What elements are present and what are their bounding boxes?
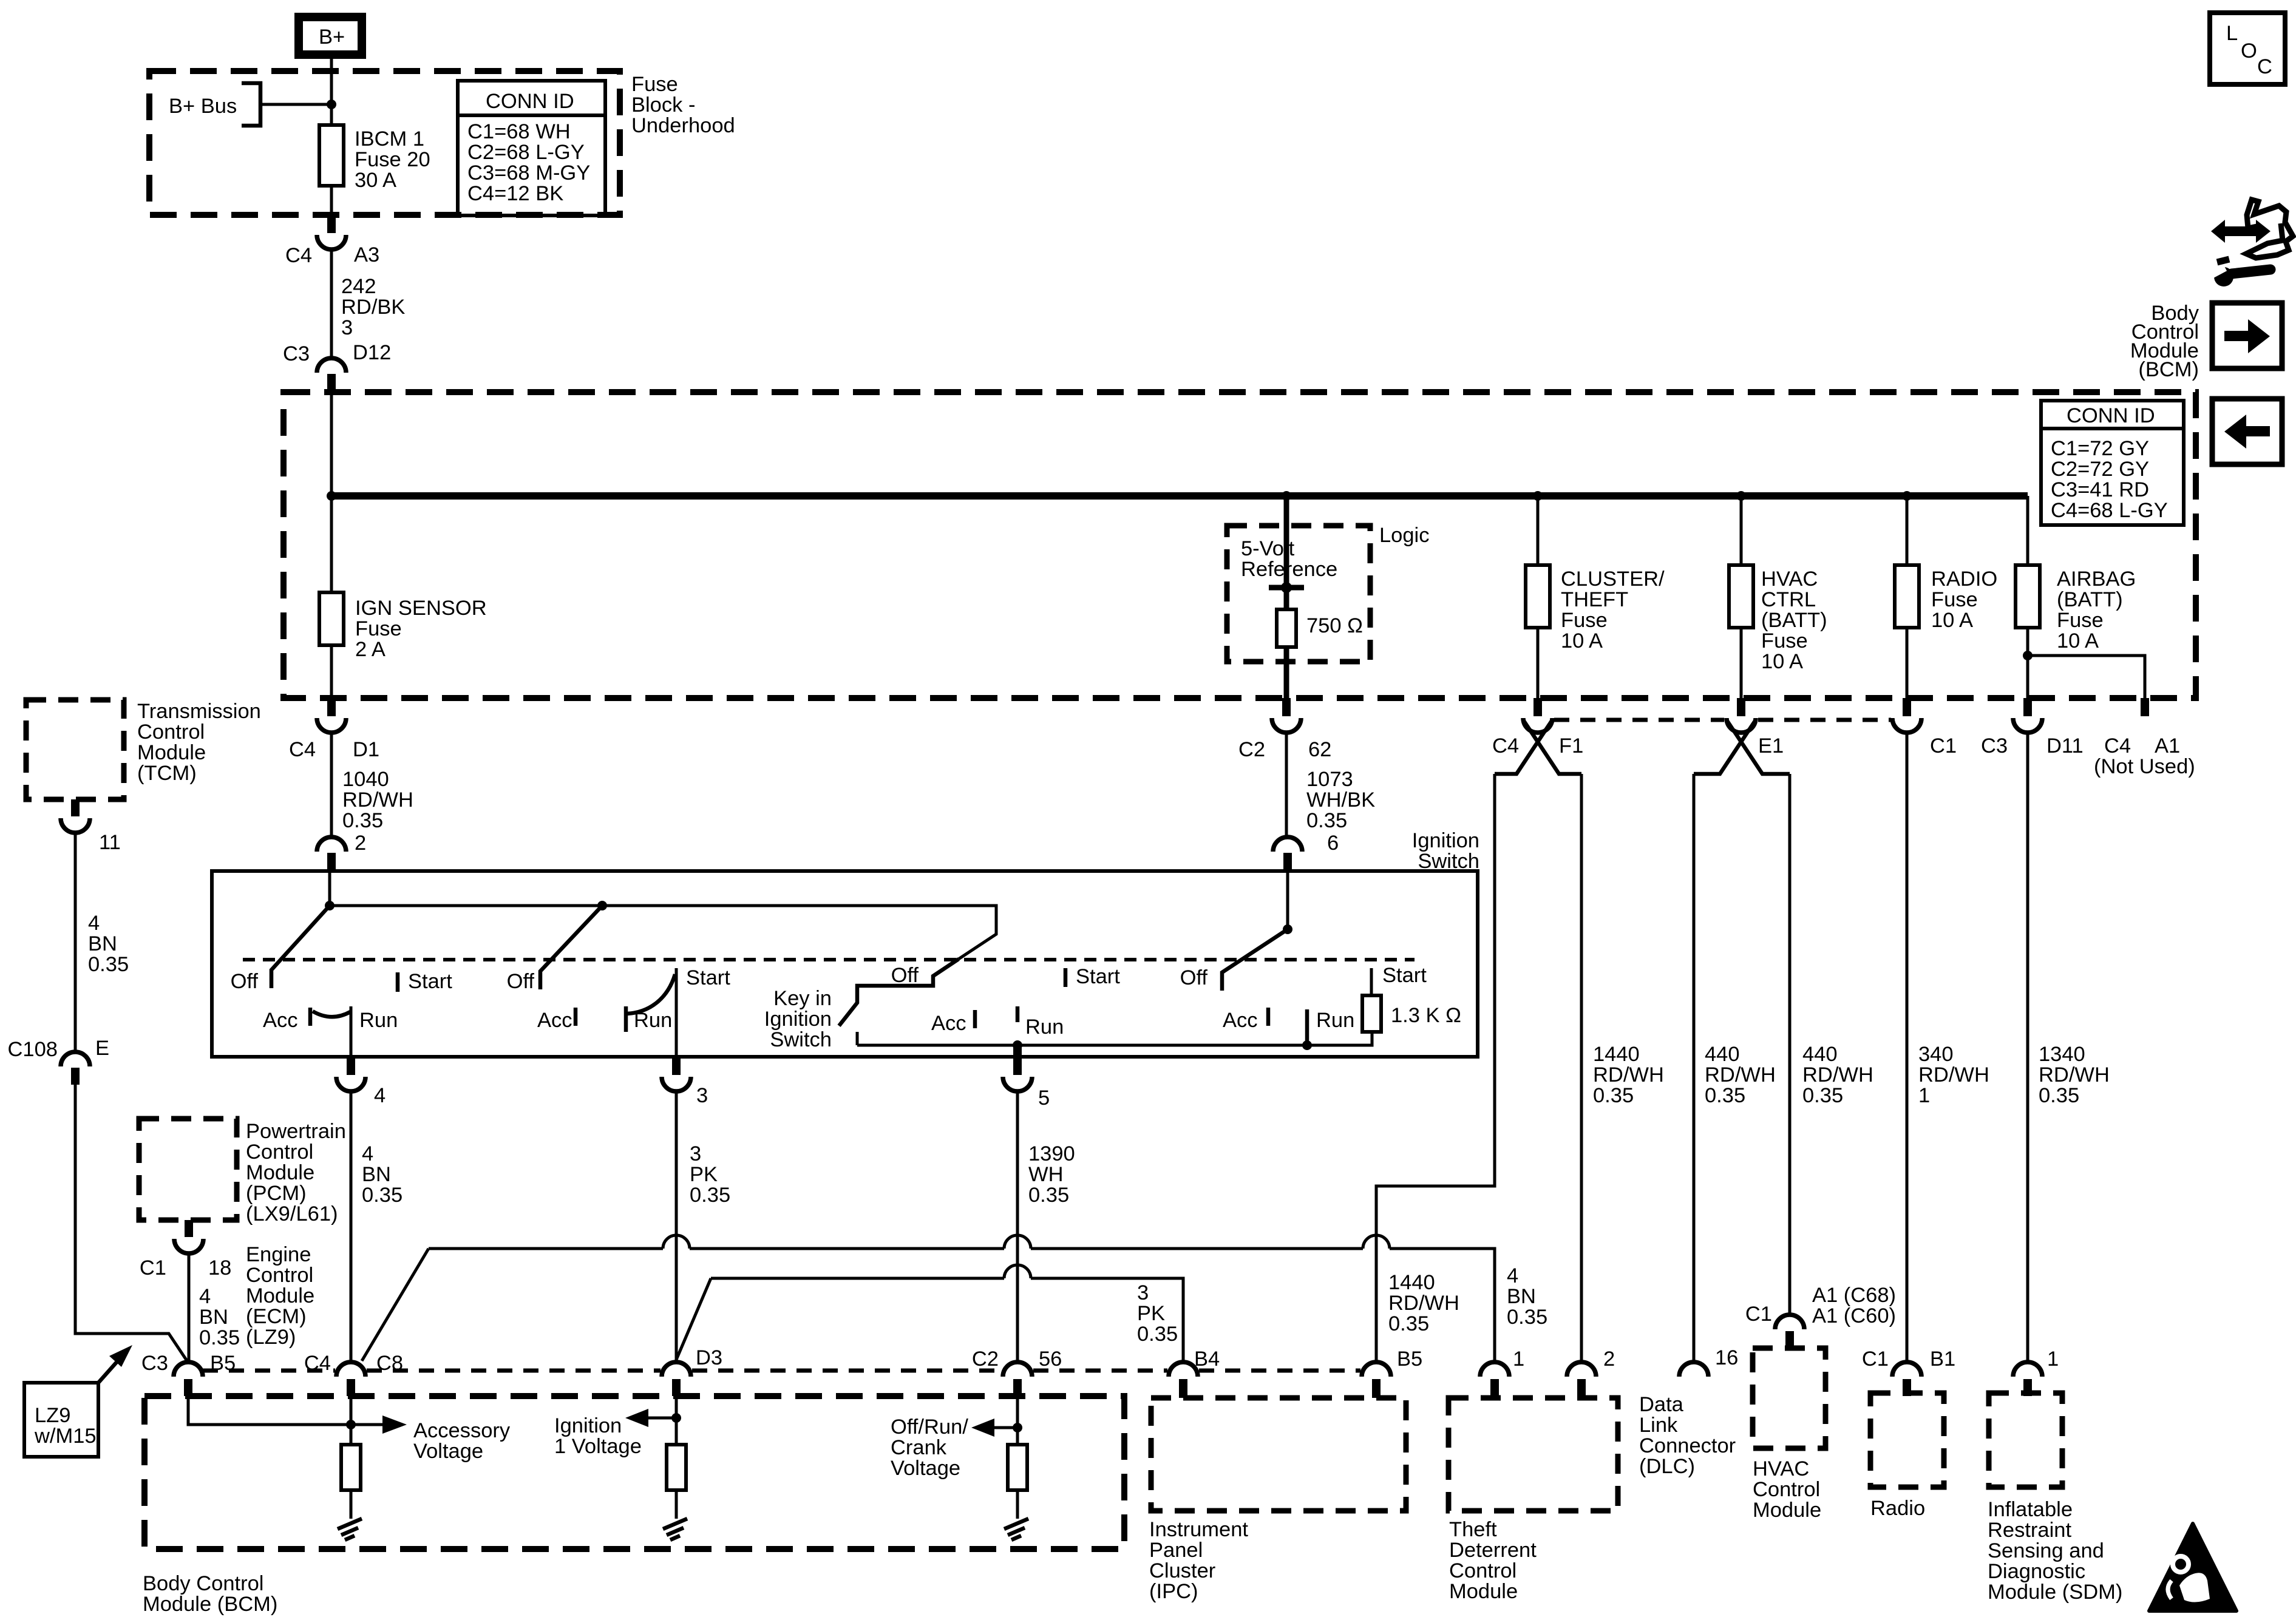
- icon LOC box: [2210, 13, 2285, 84]
- wire ignition feed rail: [325, 871, 996, 959]
- wire horizontal branch line 2: [711, 1278, 1183, 1362]
- box BCM bottom: [143, 1396, 1124, 1616]
- svg-text:0.35: 0.35: [88, 953, 129, 976]
- wire start contact 2: [675, 968, 678, 1057]
- connector C4/A3: [285, 215, 379, 267]
- connector B4 (into IPC): [1169, 1347, 1220, 1398]
- svg-text:4: 4: [374, 1084, 385, 1107]
- wire bus to 750 ohm resistor: [1269, 496, 1304, 609]
- box SDM: [1988, 1393, 2122, 1604]
- svg-text:1: 1: [2047, 1347, 2059, 1371]
- svg-text:Acc: Acc: [263, 1009, 298, 1032]
- svg-text:O: O: [2241, 39, 2257, 63]
- svg-text:IGN SENSOR: IGN SENSOR: [355, 597, 487, 620]
- svg-text:Run: Run: [359, 1009, 398, 1032]
- svg-text:Control: Control: [246, 1141, 313, 1164]
- svg-text:BN: BN: [362, 1163, 391, 1186]
- wire resistor to C2: [1284, 647, 1289, 698]
- svg-text:Off/Run/: Off/Run/: [891, 1415, 968, 1439]
- svg-text:C1=68 WH: C1=68 WH: [467, 120, 571, 143]
- resistor BCM load 3: [1008, 1445, 1027, 1490]
- svg-text:10 A: 10 A: [1761, 650, 1803, 673]
- svg-text:Theft: Theft: [1449, 1518, 1497, 1541]
- fuse IGN SENSOR 2 A: [319, 592, 487, 661]
- wire 4 into BCM load: [350, 1396, 353, 1445]
- svg-text:Control: Control: [1753, 1478, 1820, 1501]
- svg-text:Start: Start: [408, 970, 452, 993]
- svg-text:1440: 1440: [1388, 1271, 1435, 1294]
- connector 2 (into theft module): [1567, 1347, 1615, 1398]
- label Fuse Block - Underhood: [631, 73, 735, 137]
- connector C1/B1 (radio): [1862, 1347, 1955, 1396]
- svg-text:CTRL: CTRL: [1761, 588, 1816, 611]
- svg-text:Acc: Acc: [931, 1012, 966, 1035]
- svg-text:RD/WH: RD/WH: [342, 788, 413, 812]
- svg-text:Control: Control: [137, 720, 205, 744]
- svg-text:C1: C1: [1862, 1347, 1889, 1371]
- connector C3/D11 (BCM out): [1981, 698, 2084, 758]
- svg-text:1: 1: [1918, 1084, 1930, 1107]
- svg-text:Engine: Engine: [246, 1243, 311, 1266]
- svg-text:Start: Start: [1076, 965, 1120, 988]
- fuse block underhood box: [149, 71, 620, 215]
- switch wiper 4: [1222, 929, 1288, 991]
- connector 16 (DLC): [1679, 1346, 1738, 1377]
- wire 5 into BCM load: [1016, 1396, 1019, 1445]
- wire IGN SENSOR fuse to D1: [330, 645, 333, 698]
- svg-text:C3=41 RD: C3=41 RD: [2051, 478, 2149, 501]
- svg-text:C108: C108: [8, 1038, 58, 1061]
- svg-text:C2: C2: [1238, 738, 1265, 761]
- wire 5 rail tap: [1013, 1045, 1022, 1059]
- wire 1073 WH/BK 0.35: [1286, 733, 1375, 855]
- svg-text:4: 4: [199, 1285, 211, 1308]
- svg-text:CONN ID: CONN ID: [486, 90, 574, 113]
- svg-text:Sensing and: Sensing and: [1988, 1539, 2104, 1562]
- svg-text:Fuse: Fuse: [2057, 609, 2104, 632]
- wire BCM feed bus: [327, 491, 2028, 501]
- svg-text:0.35: 0.35: [690, 1184, 730, 1207]
- connector C2/62 (BCM out): [1238, 698, 1331, 761]
- svg-text:Voltage: Voltage: [891, 1457, 960, 1480]
- svg-text:1440: 1440: [1593, 1043, 1640, 1066]
- icon airbag warning triangle: [2149, 1524, 2237, 1611]
- dotted connector row line (bottom): [203, 1369, 1360, 1373]
- wire B+ to fuse: [330, 58, 333, 125]
- svg-text:Run: Run: [1025, 1015, 1064, 1039]
- svg-text:(ECM): (ECM): [246, 1305, 307, 1328]
- svg-text:PK: PK: [690, 1163, 718, 1186]
- svg-text:(Not Used): (Not Used): [2094, 755, 2195, 778]
- svg-text:56: 56: [1039, 1347, 1062, 1371]
- fuse CLUSTER/THEFT 10 A: [1526, 496, 1665, 698]
- resistor 1.3 K ohm: [1362, 964, 1461, 1032]
- label DLC: [1639, 1393, 1736, 1478]
- svg-text:RD/WH: RD/WH: [1802, 1063, 1873, 1086]
- svg-text:D12: D12: [353, 341, 391, 364]
- svg-text:B+ Bus: B+ Bus: [169, 95, 237, 118]
- svg-text:D3: D3: [696, 1346, 722, 1369]
- svg-text:Body Control: Body Control: [143, 1572, 263, 1595]
- svg-text:(BATT): (BATT): [2057, 588, 2123, 611]
- svg-text:RD/BK: RD/BK: [341, 296, 405, 319]
- connector C3/D12: [283, 341, 391, 392]
- svg-text:3: 3: [696, 1084, 708, 1107]
- svg-text:C4: C4: [1492, 734, 1519, 758]
- svg-text:Accessory: Accessory: [413, 1419, 511, 1442]
- svg-text:62: 62: [1308, 738, 1331, 761]
- wire radio 340 RD/WH 1: [1907, 733, 1989, 1362]
- connector E1 (BCM out crossover): [1694, 698, 1790, 774]
- icon vehicle outline with arrow and wrench: [2209, 200, 2293, 286]
- svg-text:Control: Control: [246, 1264, 313, 1287]
- svg-text:C3=68 M-GY: C3=68 M-GY: [467, 161, 590, 185]
- fuse RADIO 10 A: [1895, 496, 1997, 698]
- box HVAC control module: [1753, 1348, 1826, 1522]
- svg-text:LZ9: LZ9: [35, 1404, 70, 1427]
- wire 4 BN 0.35 (PCM): [189, 1253, 240, 1362]
- svg-text:0.35: 0.35: [1306, 809, 1347, 832]
- svg-text:C4: C4: [2104, 734, 2131, 758]
- svg-text:PK: PK: [1137, 1302, 1165, 1325]
- switch wiper 1: [271, 906, 330, 988]
- box theft deterrent control module: [1449, 1398, 1618, 1603]
- svg-text:1390: 1390: [1028, 1142, 1075, 1165]
- svg-text:0.35: 0.35: [1388, 1312, 1429, 1335]
- svg-text:Fuse: Fuse: [631, 73, 678, 96]
- wire key-in bottom rail: [857, 1032, 1372, 1050]
- svg-text:D1: D1: [353, 738, 379, 761]
- BCM main box: [284, 392, 2196, 698]
- svg-text:Voltage: Voltage: [413, 1440, 483, 1463]
- wire theft 2 1440 RD/WH 0.35: [1581, 774, 1664, 1362]
- key-in ignition switch lever: [839, 959, 959, 1026]
- connector C1 radio (BCM out): [1892, 698, 1957, 758]
- svg-text:A1 (C60): A1 (C60): [1812, 1304, 1896, 1327]
- wire bus down to IGN SENSOR fuse: [330, 392, 333, 592]
- wire 242 RD/BK 3: [331, 249, 405, 358]
- svg-text:2: 2: [1603, 1347, 1615, 1371]
- svg-text:A1: A1: [2155, 734, 2180, 758]
- svg-text:E: E: [95, 1037, 109, 1060]
- wire airbag fuse split: [2023, 628, 2145, 698]
- connector 4 (ignition out): [336, 1057, 385, 1107]
- connector C4/C8 (into BCM): [304, 1352, 403, 1396]
- label Key in Ignition Switch: [764, 987, 832, 1051]
- svg-text:Switch: Switch: [1418, 850, 1479, 873]
- svg-text:RD/WH: RD/WH: [2039, 1063, 2110, 1086]
- hop over wire 1440: [1363, 1235, 1390, 1249]
- fuse IBCM 1 Fuse 20 30 A: [319, 125, 430, 192]
- svg-text:3: 3: [1137, 1281, 1149, 1304]
- label 3 PK 0.35 (B4 branch): [1137, 1281, 1178, 1346]
- connector 1 (into theft module): [1480, 1347, 1524, 1398]
- svg-text:Powertrain: Powertrain: [246, 1120, 346, 1143]
- svg-text:THEFT: THEFT: [1561, 588, 1628, 611]
- svg-text:1 Voltage: 1 Voltage: [554, 1435, 642, 1458]
- svg-text:C3: C3: [283, 342, 310, 365]
- svg-text:Connector: Connector: [1639, 1434, 1736, 1457]
- svg-text:CLUSTER/: CLUSTER/: [1561, 568, 1665, 591]
- svg-text:RD/WH: RD/WH: [1918, 1063, 1989, 1086]
- svg-text:BN: BN: [199, 1306, 228, 1329]
- svg-text:Radio: Radio: [1870, 1497, 1925, 1520]
- svg-text:10 A: 10 A: [2057, 629, 2099, 653]
- svg-text:WH: WH: [1028, 1163, 1063, 1186]
- svg-text:HVAC: HVAC: [1761, 568, 1818, 591]
- svg-text:C1: C1: [1745, 1303, 1772, 1326]
- svg-text:Module (SDM): Module (SDM): [1988, 1581, 2122, 1604]
- svg-text:Start: Start: [686, 966, 730, 989]
- connector C1/18 (PCM out): [140, 1220, 231, 1280]
- svg-text:10 A: 10 A: [1931, 609, 1973, 632]
- svg-text:C4: C4: [289, 738, 316, 761]
- svg-text:Acc: Acc: [537, 1009, 572, 1032]
- svg-text:4: 4: [88, 912, 100, 935]
- svg-text:C: C: [2257, 55, 2272, 78]
- svg-text:Panel: Panel: [1149, 1539, 1203, 1562]
- switch 1 labels Off Acc Run Start: [231, 970, 453, 1032]
- svg-text:3: 3: [341, 316, 353, 339]
- svg-text:Ignition: Ignition: [764, 1008, 832, 1031]
- svg-text:0.35: 0.35: [1028, 1184, 1069, 1207]
- connector 2 (ignition switch in): [317, 837, 346, 871]
- label LZ9 w/M15: [24, 1345, 132, 1457]
- wire HVAC 440 RD/WH 0.35: [1790, 774, 1873, 1314]
- connector 11 (TCM out): [61, 799, 121, 854]
- connector 1 (SDM): [2013, 1347, 2059, 1396]
- ignition switch box: [212, 871, 1478, 1057]
- svg-text:(DLC): (DLC): [1639, 1455, 1695, 1478]
- svg-text:4: 4: [362, 1142, 373, 1165]
- svg-text:16: 16: [1715, 1346, 1738, 1369]
- connector C4xF1 (BCM out crossover): [1492, 698, 1583, 774]
- svg-text:RD/WH: RD/WH: [1593, 1063, 1664, 1086]
- connector C3/B5 (into BCM): [141, 1352, 236, 1396]
- svg-text:C1=72 GY: C1=72 GY: [2051, 437, 2149, 460]
- svg-text:Underhood: Underhood: [631, 114, 735, 137]
- svg-text:(PCM): (PCM): [246, 1182, 307, 1205]
- svg-text:Fuse: Fuse: [1761, 629, 1808, 653]
- wire 4 BN 0.35 (TCM): [75, 833, 129, 1052]
- svg-text:WH/BK: WH/BK: [1306, 788, 1375, 812]
- svg-text:0.35: 0.35: [362, 1184, 402, 1207]
- svg-text:B5: B5: [1397, 1347, 1422, 1371]
- svg-text:C2=72 GY: C2=72 GY: [2051, 458, 2149, 481]
- svg-text:1: 1: [1513, 1347, 1524, 1371]
- wire ignition 1 voltage arrow: [554, 1409, 681, 1458]
- hop over wire 3: [663, 1235, 690, 1249]
- box 5-Volt Reference: [1227, 526, 1370, 662]
- svg-text:2 A: 2 A: [355, 638, 385, 661]
- svg-text:3: 3: [690, 1142, 701, 1165]
- switch 2 labels Off Acc Run Start: [507, 966, 731, 1032]
- svg-text:(BATT): (BATT): [1761, 609, 1827, 632]
- box TCM: [26, 700, 261, 799]
- resistor BCM load 1: [341, 1445, 361, 1490]
- svg-text:C4: C4: [304, 1352, 331, 1375]
- svg-text:4: 4: [1507, 1264, 1518, 1287]
- svg-text:10 A: 10 A: [1561, 629, 1603, 653]
- svg-text:C1: C1: [140, 1256, 166, 1280]
- svg-text:1073: 1073: [1306, 768, 1353, 791]
- wire horizontal branch line 1: [429, 1249, 1495, 1362]
- box IPC: [1149, 1398, 1406, 1603]
- svg-text:Module: Module: [246, 1284, 314, 1307]
- svg-text:Fuse: Fuse: [1561, 609, 1608, 632]
- svg-text:Inflatable: Inflatable: [1988, 1498, 2073, 1521]
- svg-text:340: 340: [1918, 1043, 1954, 1066]
- table CONN ID (fuse block): [458, 81, 605, 215]
- svg-text:(LZ9): (LZ9): [246, 1326, 296, 1349]
- svg-text:Ignition: Ignition: [554, 1414, 622, 1437]
- svg-text:Instrument: Instrument: [1149, 1518, 1248, 1541]
- svg-text:Run: Run: [1316, 1009, 1354, 1032]
- line accessory-voltage branch: [362, 1249, 429, 1361]
- connector C2/56 (into BCM): [972, 1347, 1062, 1396]
- wire run contact 3 stub: [1016, 1006, 1020, 1022]
- hop over wire 5 (line 2): [1004, 1265, 1031, 1278]
- wire accessory voltage: [188, 1397, 511, 1463]
- svg-text:Module: Module: [1753, 1499, 1821, 1522]
- svg-text:D11: D11: [2046, 734, 2084, 758]
- svg-text:E1: E1: [1758, 734, 1784, 758]
- wire run contact 1: [350, 1006, 353, 1057]
- svg-text:Start: Start: [1382, 964, 1427, 987]
- wire DLC 440 RD/WH 0.35: [1694, 774, 1776, 1362]
- label 4 BN 0.35 (branch line 1): [1507, 1264, 1547, 1329]
- svg-text:F1: F1: [1559, 734, 1583, 758]
- ground (wire 3 load): [663, 1490, 687, 1540]
- wire 4 BN 0.35: [351, 1091, 402, 1362]
- svg-text:C3: C3: [1981, 734, 2008, 758]
- svg-text:L: L: [2226, 22, 2238, 45]
- svg-text:C4: C4: [285, 244, 312, 267]
- connector B5 (into IPC): [1362, 1347, 1422, 1398]
- svg-text:C2=68 L-GY: C2=68 L-GY: [467, 141, 585, 164]
- wire start feed from connector 6: [1283, 871, 1292, 934]
- svg-text:(BCM): (BCM): [2138, 358, 2199, 381]
- svg-text:C3: C3: [141, 1352, 168, 1375]
- connector C4/A1 not used stub: [2094, 698, 2195, 778]
- svg-text:11: 11: [99, 831, 121, 854]
- svg-text:Diagnostic: Diagnostic: [1988, 1560, 2085, 1583]
- svg-text:0.35: 0.35: [1705, 1084, 1745, 1107]
- svg-text:Off: Off: [891, 964, 919, 987]
- svg-text:Cluster: Cluster: [1149, 1559, 1215, 1582]
- svg-text:0.35: 0.35: [342, 809, 383, 832]
- svg-text:0.35: 0.35: [1593, 1084, 1634, 1107]
- svg-text:440: 440: [1705, 1043, 1740, 1066]
- svg-text:Link: Link: [1639, 1414, 1678, 1437]
- fuse HVAC CTRL (BATT) 10 A: [1729, 496, 1827, 698]
- svg-text:B+: B+: [319, 25, 345, 49]
- wire 3 PK 0.35: [676, 1091, 730, 1362]
- switch 4 labels Off Acc Run Start: [1180, 966, 1355, 1045]
- svg-text:CONN ID: CONN ID: [2067, 404, 2155, 427]
- label Ignition Switch: [1412, 829, 1479, 873]
- svg-text:1.3 K Ω: 1.3 K Ω: [1391, 1004, 1461, 1027]
- svg-text:Switch: Switch: [770, 1028, 832, 1051]
- connector C108/E: [8, 1037, 110, 1085]
- ground (wire 4 load): [338, 1490, 362, 1540]
- wire C108 to B5: [75, 1085, 187, 1361]
- ground (wire 5 load): [1004, 1490, 1028, 1540]
- fuse AIRBAG (BATT) 10 A: [2016, 496, 2136, 653]
- svg-text:(LX9/L61): (LX9/L61): [246, 1202, 338, 1225]
- table CONN ID (BCM): [2041, 401, 2184, 525]
- svg-text:242: 242: [341, 275, 376, 298]
- svg-text:RD/WH: RD/WH: [1388, 1292, 1459, 1315]
- svg-text:C4=12 BK: C4=12 BK: [467, 182, 563, 205]
- svg-text:Off: Off: [507, 970, 535, 993]
- wire 1390 WH 0.35: [1017, 1091, 1075, 1362]
- svg-text:C8: C8: [376, 1352, 403, 1375]
- svg-text:Module (BCM): Module (BCM): [143, 1593, 277, 1616]
- wire off/run/crank voltage arrow: [891, 1415, 1022, 1480]
- svg-text:Fuse 20: Fuse 20: [355, 148, 430, 171]
- svg-text:Off: Off: [231, 970, 259, 993]
- wire 1040 RD/WH 0.35: [331, 733, 413, 855]
- icon arrow right box: [2212, 303, 2282, 368]
- dotted connector row line (BCM bottom): [1554, 718, 1891, 722]
- box PCM: [139, 1119, 346, 1225]
- svg-text:RD/WH: RD/WH: [1705, 1063, 1776, 1086]
- svg-text:6: 6: [1327, 832, 1339, 855]
- svg-text:RADIO: RADIO: [1931, 568, 1997, 591]
- svg-text:30 A: 30 A: [355, 169, 396, 192]
- svg-text:0.35: 0.35: [199, 1326, 240, 1349]
- svg-text:Module: Module: [1449, 1580, 1518, 1603]
- switch 3 labels Off Acc Run Start: [891, 964, 1121, 1039]
- svg-text:Logic: Logic: [1379, 524, 1429, 547]
- svg-text:1340: 1340: [2039, 1043, 2085, 1066]
- svg-text:AIRBAG: AIRBAG: [2057, 568, 2136, 591]
- svg-text:Fuse: Fuse: [355, 617, 402, 640]
- svg-text:w/M15: w/M15: [34, 1425, 97, 1448]
- svg-text:Ignition: Ignition: [1412, 829, 1479, 852]
- svg-text:A1 (C68): A1 (C68): [1812, 1284, 1896, 1307]
- box radio: [1870, 1393, 1944, 1520]
- svg-text:Reference: Reference: [1241, 558, 1337, 581]
- wire theft 1440 RD/WH jog: [1376, 774, 1495, 1362]
- svg-text:(TCM): (TCM): [137, 762, 197, 785]
- resistor BCM load 2: [667, 1445, 686, 1490]
- wire 3 into BCM load: [675, 1396, 678, 1445]
- resistor 750 ohm: [1277, 609, 1363, 647]
- svg-text:A3: A3: [354, 243, 379, 266]
- svg-text:B1: B1: [1930, 1347, 1955, 1371]
- svg-text:BN: BN: [1507, 1285, 1536, 1308]
- wire SDM 1340 RD/WH 0.35: [2028, 733, 2110, 1362]
- label Body Control Module (BCM) pointer: [2130, 302, 2199, 381]
- svg-text:Block -: Block -: [631, 93, 695, 117]
- wire fuse to C4 connector: [330, 186, 333, 215]
- svg-text:B4: B4: [1194, 1347, 1220, 1371]
- hop over wire 5: [1004, 1235, 1031, 1249]
- svg-text:18: 18: [208, 1256, 231, 1280]
- svg-text:0.35: 0.35: [2039, 1084, 2079, 1107]
- svg-text:(IPC): (IPC): [1149, 1580, 1198, 1603]
- svg-text:5: 5: [1038, 1086, 1050, 1110]
- svg-text:440: 440: [1802, 1043, 1838, 1066]
- svg-text:Fuse: Fuse: [1931, 588, 1978, 611]
- svg-text:Transmission: Transmission: [137, 700, 261, 723]
- svg-text:Key in: Key in: [773, 987, 832, 1010]
- connector C4/D1 (BCM out): [289, 698, 379, 761]
- switch wiper 2: [540, 906, 602, 989]
- svg-text:Restraint: Restraint: [1988, 1519, 2071, 1542]
